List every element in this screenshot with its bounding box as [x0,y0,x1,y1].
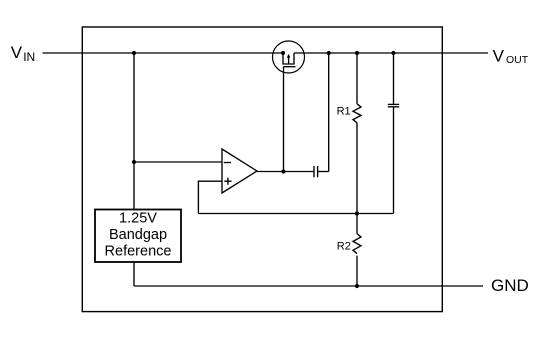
svg-text:Reference: Reference [105,243,172,259]
svg-text:IN: IN [23,50,35,64]
svg-text:GND: GND [491,276,529,295]
svg-text:R1: R1 [337,106,351,118]
svg-text:V: V [493,47,505,66]
svg-text:OUT: OUT [506,54,529,66]
svg-text:V: V [11,43,23,62]
svg-text:1.25V: 1.25V [119,211,157,227]
svg-text:R2: R2 [337,241,351,253]
svg-text:Bandgap: Bandgap [109,227,167,243]
